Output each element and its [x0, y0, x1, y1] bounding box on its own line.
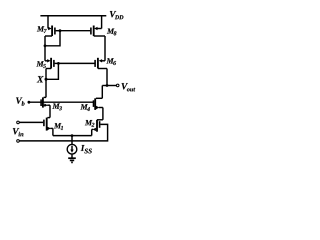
node X dot: [45, 78, 48, 81]
label VDD: [110, 11, 124, 19]
node gate M7 junction dot: [59, 29, 62, 32]
terminal Vb dot: [28, 101, 31, 104]
node gate M5 junction dot: [57, 62, 60, 65]
transistor M6: [95, 58, 107, 69]
wire tail to ISS: [71, 136, 73, 145]
wire Vout node horizontal: [102, 85, 116, 87]
transistor M7: [45, 16, 60, 36]
terminal Vin upper open circle: [17, 121, 20, 124]
node Vout junction dot: [106, 84, 109, 87]
transistor M4: [94, 86, 103, 110]
label ISS: [81, 145, 92, 153]
wire M3 source to M1 drain: [49, 105, 51, 117]
transistor M8: [91, 16, 105, 36]
wire ISS to ground: [71, 154, 73, 158]
wire M5 diode connection: [46, 63, 58, 79]
wire VDD rail: [40, 15, 106, 17]
ground: [68, 158, 76, 162]
label M5: [36, 61, 46, 68]
label M8: [107, 29, 117, 36]
terminal Vin lower open circle: [17, 140, 20, 143]
label Vin: [13, 128, 24, 136]
label Vout: [122, 83, 136, 91]
wire M5 drain to node X: [45, 69, 47, 80]
transistor M3: [41, 97, 50, 107]
wire Vb bus: [29, 101, 93, 103]
label M1: [54, 123, 63, 130]
wire gate bus M5-M6: [58, 62, 94, 64]
transistor M5: [45, 58, 58, 69]
label M4: [80, 104, 89, 111]
current source ISS: [67, 144, 77, 154]
wire left spine M7 drain to M5 source: [44, 36, 46, 61]
label M7: [37, 26, 47, 33]
wire M8 drain to M6 source: [104, 36, 106, 61]
transistor M1: [44, 118, 53, 131]
wire Vin upper lead to M1 gate: [19, 121, 43, 123]
label M6: [106, 58, 116, 65]
label M3: [52, 103, 62, 110]
wire M7 diode connection: [45, 31, 60, 46]
node tail junction dot: [71, 134, 74, 137]
wire M1 source to tail: [52, 128, 54, 135]
wire M6 drain to Vout node: [106, 69, 108, 86]
label X: [37, 76, 44, 82]
label Vb: [16, 97, 25, 105]
terminal Vout open circle: [116, 84, 119, 87]
wire M4 source to M2 drain: [102, 108, 104, 120]
wire input return bus: [19, 124, 107, 140]
wire gate bus M7-M8: [60, 30, 90, 32]
transistor M2: [92, 120, 103, 136]
node M7 drain junction dot: [44, 44, 47, 47]
wire node X to M3 drain: [45, 79, 47, 97]
label M2: [85, 120, 95, 127]
wire tail bus: [53, 135, 92, 137]
